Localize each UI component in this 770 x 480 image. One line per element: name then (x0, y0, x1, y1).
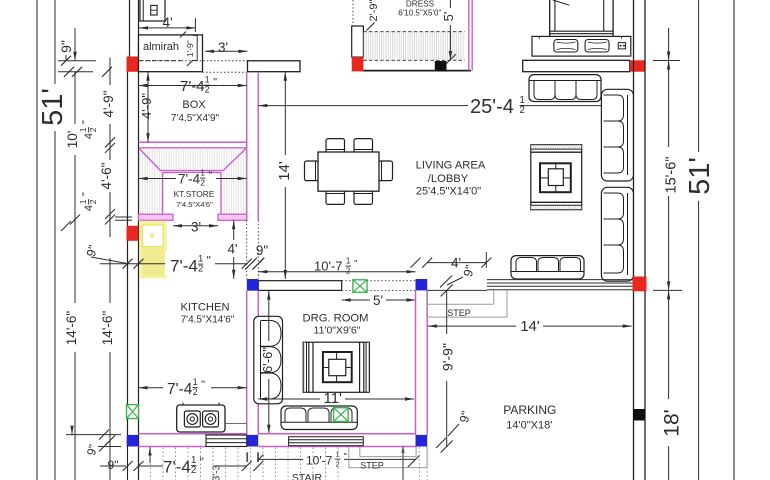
opening drg north dotted (342, 280, 416, 282)
wall bottom drg magenta (258, 433, 415, 435)
wall kitchen-living dotted (246, 220, 248, 278)
svg-text:4': 4' (227, 242, 237, 257)
dimension 7'-4half kitchen bottom (139, 387, 247, 389)
left chain line outer (74, 28, 76, 61)
wall kt bottom right pink (218, 214, 247, 220)
svg-text:": " (201, 379, 205, 391)
svg-text:7'4.5"X4'9": 7'4.5"X4'9" (171, 113, 220, 124)
wall drg east magenta (415, 290, 417, 435)
dress pillar (352, 26, 364, 57)
svg-text:4: 4 (83, 205, 95, 211)
rug drg (303, 342, 369, 392)
extension line 9in top (58, 60, 96, 62)
dimension 3' top door (205, 50, 248, 52)
svg-text:LIVING AREA: LIVING AREA (416, 160, 486, 172)
svg-text:3': 3' (218, 40, 228, 55)
dress left dotted edge (352, 0, 354, 26)
svg-text:2: 2 (336, 460, 340, 469)
svg-text:14'-6": 14'-6" (100, 311, 115, 346)
svg-text:STEP: STEP (447, 308, 471, 318)
svg-text:PARKING: PARKING (503, 403, 556, 417)
almirah box (139, 35, 203, 72)
svg-text:5': 5' (441, 12, 456, 22)
svg-text:1: 1 (200, 168, 205, 178)
svg-text:14': 14' (276, 161, 293, 181)
wall stub living top-left (248, 61, 301, 72)
dimension 4' pass (233, 220, 235, 240)
svg-text:2: 2 (88, 127, 98, 132)
svg-text:almirah: almirah (143, 41, 179, 53)
black block dress (435, 61, 447, 71)
dimension 14' living (284, 72, 286, 155)
wall right house (633, 0, 635, 480)
svg-text:10'-7: 10'-7 (306, 454, 333, 468)
svg-text:": " (354, 259, 357, 270)
svg-text:14': 14' (520, 318, 540, 335)
wall dress right magenta (468, 0, 470, 71)
dimension 9'-9in parking (446, 290, 448, 334)
svg-text:7'-4: 7'-4 (167, 381, 193, 398)
svg-text:DRESS: DRESS (406, 0, 435, 9)
svg-text:7'-4: 7'-4 (178, 172, 201, 187)
label 10'-7half drg (310, 258, 350, 271)
svg-text:3': 3' (191, 220, 201, 235)
sofa south drg (281, 406, 357, 430)
svg-text:": " (200, 455, 204, 469)
svg-text:15'-6": 15'-6" (664, 157, 680, 194)
dimension 11' drg (258, 398, 320, 400)
dining chair right (379, 161, 393, 181)
bed (550, 0, 613, 39)
wall left outer (127, 57, 129, 447)
svg-text:7'4.5"X4'6": 7'4.5"X4'6" (176, 200, 213, 209)
svg-text:2: 2 (198, 264, 203, 275)
svg-text:7'-4: 7'-4 (163, 458, 191, 477)
cabinet above almirah (140, 0, 165, 21)
svg-text:2: 2 (519, 105, 525, 116)
dimension 5' dress (449, 0, 451, 8)
column red parking (633, 277, 647, 292)
svg-text:2: 2 (346, 267, 351, 276)
svg-text:1: 1 (78, 199, 88, 204)
svg-text:": " (81, 192, 92, 196)
sofa north living (529, 75, 601, 102)
svg-text:1: 1 (346, 257, 351, 266)
svg-text:4'-6": 4'-6" (99, 162, 114, 189)
svg-text:4': 4' (451, 256, 461, 271)
column red top-right (630, 60, 645, 71)
step lines drg-parking (426, 290, 428, 317)
wall BOX right magenta (246, 72, 248, 221)
svg-text:2: 2 (191, 465, 197, 476)
plinth edge line (427, 289, 487, 291)
svg-text:": " (207, 254, 211, 268)
almirah depth bracket (196, 36, 198, 61)
dimension 10'-7half drg (258, 271, 415, 273)
dining chair top-left (326, 139, 345, 153)
pillow left (554, 40, 578, 53)
ktstore hood outline magenta (139, 148, 161, 171)
svg-text:STEP: STEP (360, 461, 384, 471)
svg-text:9'-9": 9'-9" (440, 343, 456, 371)
svg-text:14'0"X18': 14'0"X18' (506, 420, 552, 432)
wall shelf living north (523, 60, 630, 71)
plot boundary line right (733, 0, 735, 480)
column blue bottom-left (127, 435, 139, 447)
dimension 4' almirah (139, 27, 195, 29)
hidden wall dotted top (139, 60, 248, 62)
dimension line 18' right (668, 290, 670, 399)
label 4half chain b (78, 192, 98, 211)
black block parking wall (633, 409, 645, 421)
wall bottom kitchen magenta (139, 433, 247, 435)
svg-text:6'-6": 6'-6" (260, 347, 275, 373)
step box stair (359, 447, 361, 457)
rug living (531, 145, 582, 210)
wall drg north (258, 281, 341, 291)
kitchen sink (143, 225, 164, 247)
dimension bottom 10'-7half (258, 458, 303, 460)
wall dress bottom (363, 70, 471, 72)
svg-text:7'4.5"X14'6": 7'4.5"X14'6" (181, 315, 235, 326)
svg-text:": " (344, 452, 347, 462)
dimension 25'-4half (258, 105, 468, 107)
wall kt bottom left pink (139, 214, 174, 220)
label 7'-4half kitchen bottom (163, 377, 211, 398)
almirah hidden shelf line (139, 60, 182, 62)
window bottom drg (289, 437, 364, 446)
plinth band living south (487, 279, 634, 281)
svg-text:6'10.5"X5'0": 6'10.5"X5'0" (398, 8, 441, 17)
wall BOX bottom magenta (139, 141, 247, 143)
label 7'-4half kitchen mid (165, 252, 215, 275)
svg-text:1: 1 (193, 377, 198, 387)
extension line bottom-left wall (66, 434, 121, 436)
window green kitchen west (127, 405, 139, 419)
dining table (318, 152, 379, 191)
wall living west magenta (246, 72, 248, 221)
dining chair bottom-left (326, 190, 345, 204)
svg-text:25'4.5"X14'0": 25'4.5"X14'0" (416, 186, 481, 198)
svg-text:51': 51' (37, 88, 69, 126)
sofa east living upper (601, 89, 633, 181)
tick marks mid-left chain (105, 137, 115, 147)
kitchen sill ledge (206, 424, 247, 434)
column blue bottom-right (416, 435, 428, 447)
dimension line 51' left (54, 0, 56, 84)
stove kitchen (177, 405, 225, 432)
svg-text:2'-9": 2'-9" (368, 0, 380, 21)
window green sofa drg (334, 408, 349, 422)
dimension 7'-4half kitchen mid (100, 263, 247, 265)
svg-text:BOX: BOX (182, 99, 206, 111)
wall left inner (138, 0, 140, 480)
svg-text:": " (81, 120, 92, 124)
svg-text:/LOBBY: /LOBBY (428, 173, 469, 185)
svg-text:9": 9" (58, 40, 74, 53)
dimension 5' drg opening (342, 299, 370, 301)
kitchen counter yellow (139, 221, 167, 278)
svg-text:DRG. ROOM: DRG. ROOM (303, 313, 369, 325)
pillow right (585, 40, 609, 53)
svg-text:14'-6": 14'-6" (64, 311, 79, 346)
kitchen drainboard (143, 249, 164, 276)
svg-text:1: 1 (205, 75, 210, 85)
svg-text:10'-7: 10'-7 (314, 259, 343, 274)
sofa south living (511, 256, 584, 279)
dimension 7'-4half KTSTORE (139, 178, 247, 180)
ktstore left dashed edge (138, 148, 140, 214)
dimension bottom 7'-4half (139, 465, 164, 467)
door sill bottom kitchen (206, 435, 247, 447)
svg-text:11'0"X9'6": 11'0"X9'6" (314, 325, 361, 337)
dimension 4'-9in BOX (147, 72, 149, 143)
column red mid-left (127, 226, 139, 241)
svg-text:STAIR: STAIR (292, 472, 323, 480)
svg-text:2: 2 (193, 387, 198, 397)
svg-text:25'-4: 25'-4 (470, 96, 514, 118)
svg-text:5': 5' (373, 293, 383, 308)
svg-text:2: 2 (200, 178, 205, 188)
svg-text:4': 4' (162, 15, 172, 30)
svg-text:4: 4 (83, 133, 95, 139)
dimension 6'-6in drg (268, 291, 270, 341)
dining chair top-right (354, 139, 373, 153)
stair dotted below blue (418, 447, 420, 480)
dimension 14' parking (428, 325, 516, 327)
left chain line inner (109, 58, 111, 86)
column blue drg nw (247, 279, 258, 291)
svg-text:KT.STORE: KT.STORE (174, 189, 215, 199)
dining chair bottom-right (354, 190, 373, 204)
dimension 7'-4half BOX (139, 85, 247, 87)
sofa east living lower (601, 187, 633, 281)
dimension 3' kt door (173, 225, 218, 227)
label 7'-4half KTSTORE (176, 173, 216, 192)
svg-text:4'-9": 4'-9" (101, 90, 116, 117)
window green drg north (353, 280, 367, 293)
column blue bottom-mid (247, 435, 258, 447)
svg-text:KITCHEN: KITCHEN (180, 302, 229, 314)
svg-text:1'-9": 1'-9" (185, 40, 195, 57)
extension ticks right wall (653, 60, 680, 62)
svg-text:18': 18' (661, 409, 684, 436)
stair up arrow (402, 447, 404, 480)
dress wardrobe hatch (363, 32, 464, 61)
stair wall projection (246, 452, 248, 462)
dimension 4' step (427, 262, 486, 264)
bed headboard platform (532, 36, 631, 56)
svg-text:11': 11' (323, 390, 342, 407)
label 4half chain a (78, 120, 98, 139)
dining chair left (305, 161, 319, 181)
plot boundary line left (36, 0, 38, 480)
column blue drg ne (416, 279, 428, 290)
svg-text:1: 1 (336, 450, 340, 459)
ktstore hatch (139, 148, 247, 214)
svg-text:9": 9" (108, 458, 119, 472)
wall drg-kitchen magenta (246, 291, 248, 435)
svg-text:2: 2 (205, 85, 210, 95)
svg-text:3'-3: 3'-3 (212, 464, 223, 480)
svg-text:7'-4: 7'-4 (180, 78, 205, 95)
sofa west drg (254, 316, 283, 404)
svg-text:": " (213, 77, 217, 89)
svg-text:7'-4: 7'-4 (170, 257, 198, 276)
clock glyph (618, 43, 625, 49)
stair treads (150, 448, 152, 480)
svg-text:2: 2 (88, 199, 98, 204)
dimension line 51' right (698, 0, 700, 152)
dimension line 15'-6in right (668, 28, 670, 61)
svg-text:51': 51' (684, 157, 716, 195)
svg-text:10': 10' (65, 131, 80, 149)
column red dress (352, 57, 364, 71)
svg-text:4'-9": 4'-9" (139, 93, 154, 119)
column red top-left (127, 57, 139, 72)
svg-text:9": 9" (256, 243, 269, 258)
svg-text:": " (209, 171, 213, 182)
